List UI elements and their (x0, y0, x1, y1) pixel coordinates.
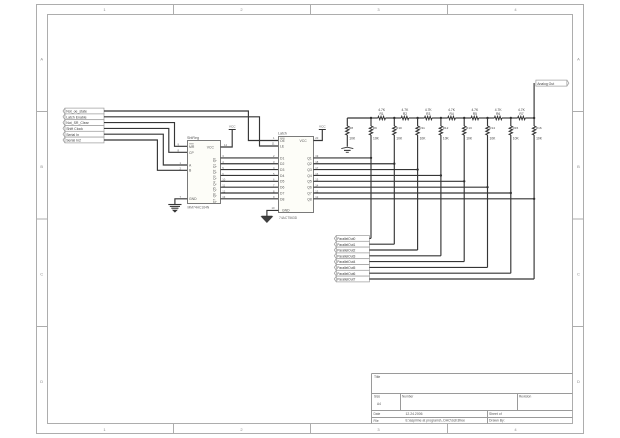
wire U1 Q7 to latch D8 (221, 198, 279, 200)
svg-text:R14: R14 (489, 126, 495, 130)
svg-text:R7: R7 (519, 112, 523, 116)
svg-text:D7: D7 (280, 191, 284, 195)
svg-text:Q5: Q5 (213, 187, 217, 192)
wire ParallelOut0 stub (369, 237, 371, 239)
wire U1 Q0 to latch D1 (221, 157, 279, 159)
junction dot node col 3 (440, 117, 442, 119)
wire bit column 7 (533, 135, 535, 279)
svg-text:Q3: Q3 (213, 175, 217, 180)
junction dot node col 0 (370, 117, 372, 119)
svg-text:Q5: Q5 (307, 180, 312, 184)
svg-text:Q7: Q7 (213, 199, 217, 204)
resistor R12 10K (bit 3) (439, 118, 449, 141)
svg-text:File: File (374, 419, 379, 423)
resistor R6 4.7k (488, 108, 511, 120)
resistor R2 4.7k (394, 108, 417, 120)
port ParallelOut2 (334, 247, 369, 253)
wire latch Q3 to column 2 (313, 169, 417, 171)
svg-text:Latch Enable: Latch Enable (66, 115, 86, 119)
svg-text:10K: 10K (396, 137, 403, 141)
junction dot latch Q4 col 3 (440, 174, 442, 176)
junction dot latch Q2 col 1 (393, 163, 395, 165)
resistor R3 4.7k (418, 108, 441, 120)
svg-text:Number: Number (402, 394, 414, 398)
svg-text:VCC: VCC (207, 145, 215, 149)
svg-text:Q4: Q4 (213, 181, 217, 186)
svg-text:C: C (40, 272, 43, 277)
svg-text:20: 20 (315, 136, 318, 140)
svg-text:VCC: VCC (229, 124, 236, 128)
port ParallelOut6 (334, 270, 369, 276)
junction dot latch Q7 col 6 (510, 192, 512, 194)
U1 part number MM74HC164N (188, 205, 210, 209)
U1 inside pin labels (189, 144, 217, 203)
svg-text:A4: A4 (377, 402, 381, 406)
resistor R13 10K (bit 4) (463, 118, 473, 141)
title block text (374, 375, 532, 423)
svg-text:Q1: Q1 (213, 164, 217, 169)
port Latch Enable (63, 114, 104, 120)
svg-text:74ACT563D: 74ACT563D (279, 216, 298, 220)
wire U1 Q2 to latch D3 (221, 169, 279, 171)
sheet inner border (48, 15, 573, 424)
port Not_oe_state (63, 108, 104, 114)
wire ParallelOut2 stub (369, 249, 417, 251)
svg-text:ParallelOut0: ParallelOut0 (337, 237, 355, 241)
svg-text:D: D (40, 379, 43, 384)
svg-text:Q1: Q1 (307, 156, 312, 160)
svg-text:Q0: Q0 (213, 158, 217, 163)
svg-text:A: A (577, 57, 580, 62)
svg-text:D3: D3 (280, 168, 284, 172)
resistor R5 4.7k (464, 108, 487, 120)
ladder node wire (347, 117, 371, 119)
svg-text:R11: R11 (419, 126, 425, 130)
svg-text:14: 14 (224, 143, 227, 147)
svg-text:ShtReg: ShtReg (187, 136, 199, 140)
wire Not_oe_state to latch OE (104, 111, 278, 141)
wire U1 Q6 to latch D7 (221, 192, 279, 194)
svg-text:R10: R10 (396, 126, 402, 130)
svg-text:Revision: Revision (519, 394, 531, 398)
wire U1 Q5 to latch D6 (221, 186, 279, 188)
svg-text:D: D (577, 379, 580, 384)
svg-text:E:\aspirine at programs\..DAC\: E:\aspirine at programs\..DAC\Sch3free (406, 419, 466, 423)
VCC symbol above U1 (229, 124, 237, 129)
svg-text:ParallelOut5: ParallelOut5 (337, 266, 355, 270)
svg-text:R3: R3 (426, 112, 430, 116)
resistor R1 4.7k (371, 108, 394, 120)
port ParallelOut4 (334, 259, 369, 265)
port Serial In (63, 131, 104, 137)
svg-text:R4: R4 (449, 112, 453, 116)
wire bit column 6 (510, 135, 512, 273)
U1 pin numbers (178, 142, 228, 199)
junction dot latch Q3 col 2 (416, 168, 418, 170)
svg-text:Q6: Q6 (213, 193, 217, 198)
wire latch Q6 to column 5 (313, 186, 487, 188)
port ParallelOut0 (334, 236, 369, 242)
resistor R14 10K (bit 5) (486, 118, 496, 141)
wire ParallelOut6 stub (369, 272, 510, 274)
U1 GND pin wire (175, 199, 187, 205)
svg-text:R15: R15 (513, 126, 519, 130)
VCC symbol above U2 (319, 124, 327, 129)
svg-text:Q2: Q2 (213, 169, 217, 174)
svg-text:D8: D8 (280, 197, 284, 201)
wire latch Q4 to column 3 (313, 174, 441, 176)
svg-text:ParallelOut2: ParallelOut2 (337, 249, 355, 253)
svg-text:D5: D5 (280, 180, 284, 184)
junction dot latch Q6 col 5 (486, 186, 488, 188)
junction dot node col 1 (393, 117, 395, 119)
svg-text:R9: R9 (373, 126, 377, 130)
U2 part number 74ACT563D (279, 216, 298, 220)
wire ParallelOut1 stub (369, 243, 394, 245)
svg-text:Q4: Q4 (307, 174, 312, 178)
svg-text:ParallelOut4: ParallelOut4 (337, 260, 355, 264)
svg-text:Latch: Latch (278, 132, 287, 136)
wire U1 Q1 to latch D2 (221, 163, 279, 165)
svg-text:OE: OE (280, 139, 286, 143)
junction dot latch Q1 col 0 (370, 157, 372, 159)
svg-text:Shift Clock: Shift Clock (66, 127, 83, 131)
svg-text:VCC: VCC (300, 139, 308, 143)
svg-text:D2: D2 (280, 162, 284, 166)
svg-text:Title: Title (374, 375, 380, 379)
svg-text:D4: D4 (280, 174, 284, 178)
wire bit column 3 (440, 135, 442, 256)
svg-text:Q6: Q6 (307, 186, 312, 190)
svg-text:Sheet of: Sheet of (489, 412, 502, 416)
port Not_SR_Clear (63, 120, 104, 126)
resistor R16 10K (bit 7) (532, 118, 542, 141)
svg-text:R1: R1 (380, 112, 384, 116)
port Analog Out (536, 80, 569, 86)
wire ParallelOut5 stub (369, 266, 487, 268)
svg-text:R6: R6 (496, 112, 500, 116)
svg-text:Analog Out: Analog Out (537, 82, 554, 86)
svg-text:ParallelOut1: ParallelOut1 (337, 243, 355, 247)
wire latch Q1 to column 0 (313, 157, 371, 159)
wire bit column 0 (370, 135, 372, 238)
svg-text:R12: R12 (443, 126, 449, 130)
U1 name ShtReg (187, 136, 199, 140)
ground under U2 (261, 216, 274, 223)
junction dot node col 7 (533, 117, 535, 119)
svg-text:Date: Date (374, 412, 381, 416)
wire latch Q8 to column 7 (313, 198, 534, 200)
svg-text:Q3: Q3 (307, 168, 312, 172)
U2 name Latch (278, 132, 287, 136)
svg-text:C: C (577, 272, 580, 277)
svg-text:Not_SR_Clear: Not_SR_Clear (66, 121, 89, 125)
resistor R8 10K (terminator) (346, 118, 356, 147)
wire bit column 1 (393, 135, 395, 244)
svg-text:B: B (40, 164, 43, 169)
junction dot node col 5 (486, 117, 488, 119)
svg-text:Not_oe_state: Not_oe_state (66, 110, 87, 114)
svg-text:LE: LE (280, 145, 285, 149)
port ParallelOut5 (334, 265, 369, 271)
svg-text:Q7: Q7 (307, 191, 312, 195)
wire bit column 4 (463, 135, 465, 262)
svg-text:10K: 10K (536, 137, 543, 141)
wire ParallelOut7 stub (369, 278, 534, 280)
svg-text:10: 10 (272, 206, 275, 210)
wire U1 Q4 to latch D5 (221, 180, 279, 182)
svg-text:10K: 10K (513, 137, 520, 141)
svg-text:ParallelOut6: ParallelOut6 (337, 272, 355, 276)
svg-text:D6: D6 (280, 186, 284, 190)
wire Not_SR_Clear to shtreg MR (104, 123, 187, 147)
svg-text:VCC: VCC (319, 124, 326, 128)
svg-text:Q2: Q2 (307, 162, 312, 166)
latch U2 body (279, 137, 314, 213)
svg-text:R2: R2 (403, 112, 407, 116)
U2 pin numbers (272, 136, 319, 210)
resistor R4 4.7k (441, 108, 464, 120)
junction dot node col 6 (510, 117, 512, 119)
svg-text:10K: 10K (349, 137, 356, 141)
U2 VCC pin wire (313, 130, 322, 141)
U2 GND pin wire (267, 210, 279, 216)
wire latch Q7 to column 6 (313, 192, 510, 194)
svg-text:10K: 10K (373, 137, 380, 141)
port ParallelOut3 (334, 253, 369, 259)
resistor R7 4.7k (511, 108, 534, 120)
svg-text:A: A (40, 57, 43, 62)
port ParallelOut7 (334, 276, 369, 282)
wire latch Q2 to column 1 (313, 163, 394, 165)
resistor R11 10K (bit 2) (416, 118, 426, 141)
wire Serial In to shtreg A (104, 134, 187, 165)
svg-text:12.24.2006: 12.24.2006 (406, 412, 423, 416)
svg-text:MR: MR (189, 145, 195, 149)
ground under U1 (168, 205, 181, 213)
svg-text:B: B (577, 164, 580, 169)
shift register U1 body (188, 141, 221, 204)
svg-text:D1: D1 (280, 156, 284, 160)
svg-text:R16: R16 (536, 126, 542, 130)
svg-text:10K: 10K (490, 137, 497, 141)
svg-text:10K: 10K (443, 137, 450, 141)
port Shift Clock (63, 126, 104, 132)
junction dot node col 4 (463, 117, 465, 119)
svg-text:ParallelOut7: ParallelOut7 (337, 278, 355, 282)
wire latch Q5 to column 4 (313, 180, 464, 182)
svg-text:Serial In2: Serial In2 (66, 139, 81, 143)
svg-text:GND: GND (189, 197, 197, 201)
svg-text:R8: R8 (349, 126, 353, 130)
svg-text:Drawn By:: Drawn By: (489, 419, 505, 423)
svg-text:Q8: Q8 (307, 197, 312, 201)
svg-text:10K: 10K (420, 137, 427, 141)
resistor R9 10K (bit 0) (369, 118, 379, 141)
wire U1 Q3 to latch D4 (221, 174, 279, 176)
svg-text:Serial In: Serial In (66, 133, 79, 137)
svg-text:Size: Size (374, 394, 380, 398)
svg-text:CP: CP (189, 151, 194, 155)
title block frame (372, 374, 573, 424)
svg-text:MM74HC164N: MM74HC164N (188, 205, 210, 209)
svg-text:GND: GND (282, 209, 290, 213)
svg-text:ParallelOut3: ParallelOut3 (337, 254, 355, 258)
wire ParallelOut4 stub (369, 261, 464, 263)
wire Serial In2 to shtreg B (104, 140, 187, 170)
U1 VCC pin wire (221, 130, 233, 148)
wire ParallelOut3 stub (369, 255, 441, 257)
wire Analog Out (533, 83, 535, 118)
resistor R10 10K (bit 1) (393, 118, 403, 141)
wire Latch Enable to latch LE (104, 117, 278, 146)
junction dot latch Q8 col 7 (533, 198, 535, 200)
svg-text:10K: 10K (466, 137, 473, 141)
U2 inside pin labels (280, 138, 312, 213)
port ParallelOut1 (334, 241, 369, 247)
svg-text:R13: R13 (466, 126, 472, 130)
wire Shift Clock to shtreg CP (104, 128, 187, 152)
junction dot node col 2 (416, 117, 418, 119)
port Serial In2 (63, 137, 104, 143)
svg-text:R5: R5 (473, 112, 477, 116)
junction dot latch Q5 col 4 (463, 180, 465, 182)
wire bit column 2 (417, 135, 419, 250)
wire bit column 5 (487, 135, 489, 267)
ground under R8 (341, 147, 353, 152)
resistor R15 10K (bit 6) (509, 118, 519, 141)
